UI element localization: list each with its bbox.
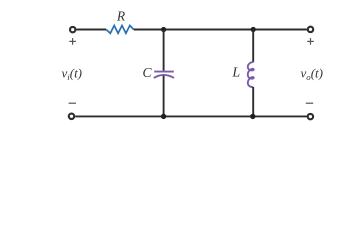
capacitor C1 bottom curved plate bbox=[154, 75, 174, 78]
output terminal bottom-right open circle bbox=[308, 114, 313, 119]
node label vo(t) output voltage bbox=[301, 66, 323, 82]
input terminal bottom-left open circle bbox=[69, 114, 74, 119]
resistor R1 zigzag bbox=[106, 26, 134, 34]
node junction top of C bbox=[161, 27, 166, 32]
wire top-middle segment bbox=[134, 29, 307, 31]
wire capacitor branch upper bbox=[163, 30, 165, 71]
wire inductor branch lower bbox=[252, 87, 254, 117]
node junction bottom of C bbox=[161, 114, 166, 119]
wire top-left segment bbox=[76, 29, 106, 31]
node junction bottom of L bbox=[250, 114, 255, 119]
inductor L1 coil bbox=[248, 62, 254, 87]
resistor R1 value label R bbox=[116, 9, 126, 24]
inductor L1 value label L bbox=[231, 65, 240, 80]
minus sign left bbox=[69, 102, 76, 104]
svg-text:R: R bbox=[116, 9, 126, 24]
capacitor C1 top plate bbox=[154, 71, 174, 73]
minus sign right bbox=[306, 102, 313, 104]
capacitor C1 value label C bbox=[142, 65, 152, 80]
input terminal top-left open circle bbox=[70, 27, 75, 32]
plus sign left bbox=[69, 38, 76, 45]
svg-text:L: L bbox=[231, 65, 240, 80]
node junction top of L bbox=[251, 27, 256, 32]
wire capacitor branch lower bbox=[163, 76, 165, 117]
wire bottom rail bbox=[75, 115, 307, 117]
wire inductor branch upper bbox=[252, 30, 254, 63]
svg-text:C: C bbox=[142, 65, 152, 80]
node label vi(t) input voltage bbox=[62, 66, 83, 82]
svg-text:vi(t): vi(t) bbox=[62, 66, 83, 82]
svg-text:vo(t): vo(t) bbox=[301, 66, 323, 82]
output terminal top-right open circle bbox=[308, 27, 313, 32]
plus sign right bbox=[307, 38, 314, 45]
